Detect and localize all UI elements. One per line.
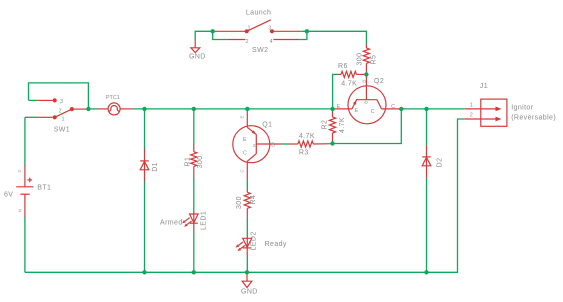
- svg-text:E: E: [337, 104, 341, 110]
- svg-text:2: 2: [246, 39, 249, 45]
- svg-text:4.7K: 4.7K: [299, 133, 315, 140]
- svg-text:300: 300: [236, 196, 243, 209]
- svg-text:D1: D1: [152, 162, 159, 172]
- svg-text:GND: GND: [241, 289, 258, 296]
- svg-text:Ignitor: Ignitor: [511, 105, 534, 112]
- svg-text:E: E: [240, 115, 245, 118]
- svg-text:(Reversable): (Reversable): [511, 115, 556, 122]
- svg-text:1: 1: [62, 117, 65, 123]
- svg-text:LED2: LED2: [251, 231, 258, 250]
- svg-text:R2: R2: [322, 120, 329, 130]
- svg-text:LED1: LED1: [201, 211, 208, 230]
- svg-text:3: 3: [268, 26, 271, 32]
- svg-text:SW1: SW1: [54, 126, 70, 133]
- svg-text:GND: GND: [189, 54, 206, 61]
- svg-text:Ready: Ready: [265, 241, 287, 248]
- svg-text:P: P: [17, 169, 22, 172]
- svg-text:4.7K: 4.7K: [341, 81, 357, 88]
- svg-text:1: 1: [248, 26, 251, 32]
- svg-text:1: 1: [470, 103, 473, 109]
- svg-text:2: 2: [470, 113, 473, 119]
- svg-text:B: B: [361, 80, 366, 83]
- svg-text:PTC1: PTC1: [106, 95, 120, 101]
- svg-text:3: 3: [60, 99, 63, 105]
- svg-text:Q2: Q2: [374, 78, 384, 85]
- svg-text:4: 4: [270, 39, 273, 45]
- svg-text:B: B: [252, 144, 257, 147]
- svg-text:Launch: Launch: [246, 10, 271, 17]
- svg-text:B: B: [364, 101, 369, 104]
- svg-text:C: C: [391, 104, 395, 110]
- svg-text:BT1: BT1: [37, 185, 51, 192]
- svg-text:300: 300: [357, 53, 364, 66]
- svg-text:J1: J1: [480, 83, 488, 90]
- svg-text:R1: R1: [185, 157, 192, 167]
- svg-text:E: E: [243, 137, 247, 143]
- svg-text:R5: R5: [371, 55, 378, 65]
- svg-text:Armed: Armed: [160, 219, 183, 226]
- svg-text:N: N: [17, 209, 22, 212]
- svg-text:6V: 6V: [4, 192, 13, 199]
- svg-text:E: E: [355, 108, 359, 114]
- svg-text:C: C: [243, 150, 247, 156]
- svg-text:SW2: SW2: [252, 47, 268, 54]
- svg-text:300: 300: [197, 155, 204, 168]
- svg-text:D2: D2: [437, 158, 444, 168]
- svg-text:R3: R3: [299, 150, 309, 157]
- svg-text:2: 2: [59, 109, 62, 115]
- svg-text:B: B: [271, 142, 275, 148]
- svg-text:4.7K: 4.7K: [339, 117, 346, 133]
- svg-text:R6: R6: [338, 63, 348, 70]
- svg-text:Q1: Q1: [262, 121, 272, 128]
- svg-text:C: C: [371, 109, 375, 115]
- svg-text:R4: R4: [250, 195, 257, 205]
